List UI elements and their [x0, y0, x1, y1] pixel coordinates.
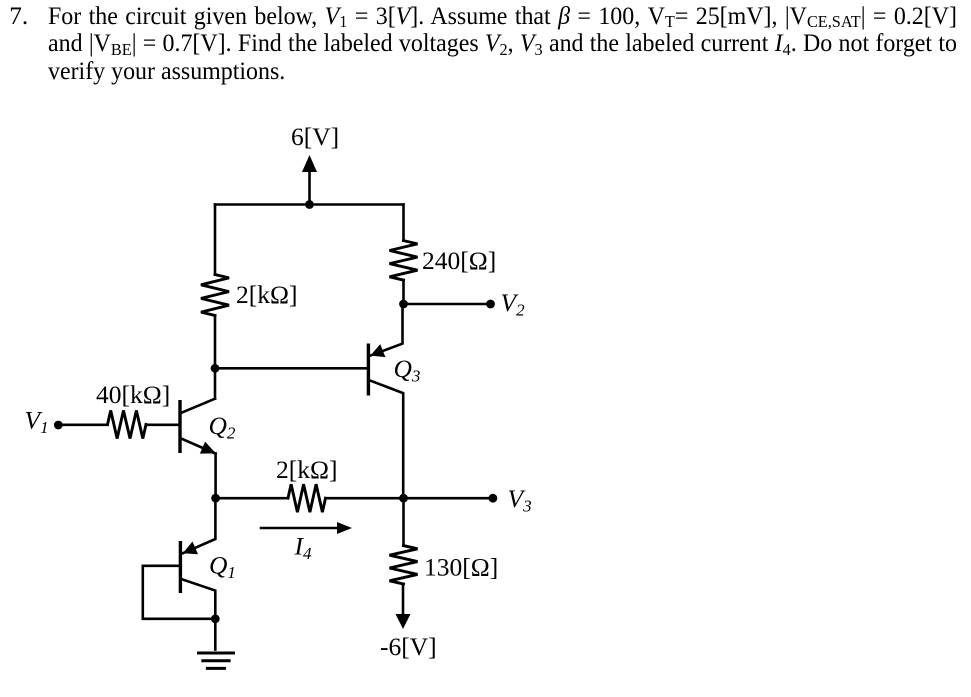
node: V2 terminal dot	[486, 300, 495, 309]
transistor Q1 (PNP) body bar	[179, 541, 182, 593]
current arrow I4	[261, 522, 352, 534]
svg-text:Q1: Q1	[209, 551, 236, 583]
node: V2 junction	[399, 300, 408, 309]
resistor R 2[kOhm] left	[201, 275, 229, 316]
node: base net junction	[211, 364, 220, 373]
svg-text:V2: V2	[501, 288, 526, 320]
svg-text:2[kΩ]: 2[kΩ]	[276, 455, 337, 484]
wire: 240 to V2 junction	[402, 280, 405, 304]
svg-text:Q3: Q3	[394, 354, 421, 386]
value label 2[kOhm] middle	[276, 455, 337, 484]
resistor R 40[kOhm]	[108, 411, 147, 439]
transistor Q3 emitter with arrow	[370, 304, 402, 357]
svg-text:-6[V]: -6[V]	[380, 632, 437, 661]
svg-text:6[V]: 6[V]	[291, 122, 339, 151]
ground symbol	[197, 653, 235, 668]
resistor R 2[kOhm] middle	[288, 484, 326, 512]
svg-text:40[kΩ]: 40[kΩ]	[96, 380, 170, 409]
wire: V2 stub	[404, 303, 491, 306]
node: emitter junction left	[211, 494, 220, 503]
svg-text:240[Ω]: 240[Ω]	[422, 246, 496, 275]
net label V3	[508, 484, 532, 516]
transistor Q1 collector	[182, 579, 215, 619]
wire: 40k to Q2 base	[146, 423, 179, 426]
wire: left to 2k mid	[216, 497, 288, 500]
node: top rail junction	[305, 200, 314, 209]
supply arrow (6V source)	[302, 155, 317, 205]
svg-text:130[Ω]: 130[Ω]	[424, 553, 498, 582]
value label 240[Ohm]	[422, 246, 496, 275]
wire: Q2 emitter down to V3 net	[214, 454, 217, 499]
designator Q1	[209, 551, 236, 583]
net label V2	[501, 288, 526, 320]
designator Q3	[394, 354, 421, 386]
svg-text:2[kΩ]: 2[kΩ]	[236, 280, 297, 309]
wire: ground stem	[214, 619, 217, 650]
value label 2[kOhm] left	[236, 280, 297, 309]
current label I4	[294, 532, 313, 564]
resistor R 130[Ohm]	[390, 546, 418, 584]
node: V3 terminal dot	[489, 494, 498, 503]
svg-text:I4: I4	[294, 532, 313, 564]
wire: left branch lower	[214, 316, 217, 369]
value label 40[kOhm]	[96, 380, 170, 409]
svg-text:V3: V3	[508, 484, 532, 516]
wire: left branch upper	[214, 205, 217, 275]
svg-text:Q2: Q2	[209, 411, 236, 443]
transistor Q1 base loop (diode connection)	[143, 566, 216, 619]
svg-text:V1: V1	[25, 406, 49, 438]
transistor Q2 collector	[181, 399, 215, 413]
transistor Q1 emitter with arrow	[183, 498, 216, 554]
node: V1 terminal dot	[54, 421, 63, 430]
wire: top rail	[215, 203, 404, 206]
supply arrow -6V	[396, 584, 411, 629]
net label V1	[25, 406, 49, 438]
node: V3 junction	[399, 494, 408, 503]
transistor Q2 (NPN) body bar	[178, 400, 181, 453]
transistor Q3 (PNP) body bar	[367, 344, 370, 396]
wire: V1 to 40k	[58, 423, 107, 426]
wire: right branch upper	[402, 205, 405, 241]
supply label 6[V]	[291, 122, 339, 151]
wire: 2k mid to V3 junction	[326, 497, 404, 500]
resistor R 240[Ohm]	[390, 241, 418, 281]
transistor Q3 collector	[370, 380, 404, 498]
wire: V3 stub	[404, 497, 493, 500]
designator Q2	[209, 411, 236, 443]
wire: V3 junction down to 130	[402, 498, 405, 545]
wire: junction down to Q2 collector	[214, 368, 217, 398]
transistor Q2 emitter with arrow	[181, 438, 216, 453]
wire: base net to Q3	[215, 367, 367, 370]
value label 130[Ohm]	[424, 553, 498, 582]
node: Q1 bottom junction	[211, 614, 220, 623]
supply label -6[V]	[380, 632, 437, 661]
